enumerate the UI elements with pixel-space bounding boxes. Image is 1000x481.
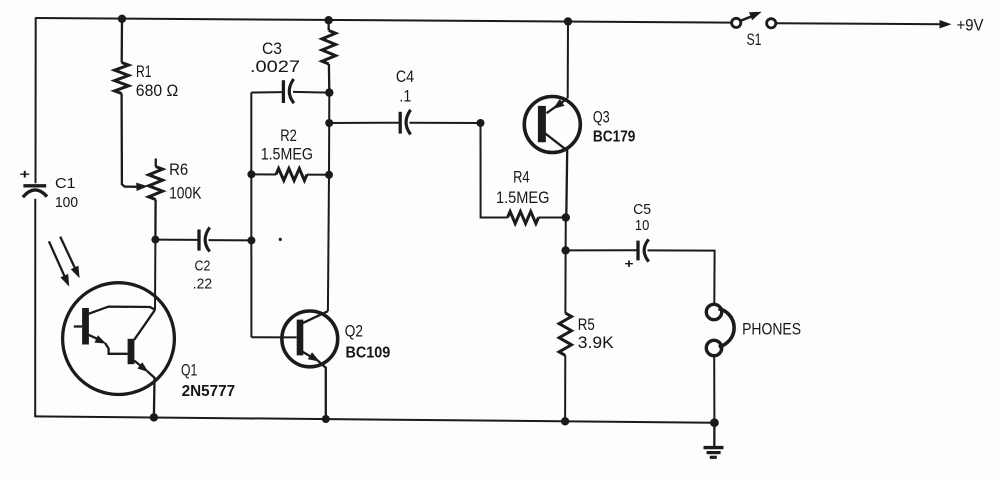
switch S1 lever xyxy=(740,15,757,22)
svg-text:R5: R5 xyxy=(578,315,595,334)
wire R1 bottom to R6 wiper xyxy=(122,94,137,187)
node C2 right xyxy=(247,236,255,244)
wire +9V line right of S1 xyxy=(776,22,942,25)
svg-text:2N5777: 2N5777 xyxy=(182,383,236,400)
svg-text:.1: .1 xyxy=(399,87,411,106)
ground xyxy=(704,423,724,458)
node C2 left xyxy=(151,236,159,244)
wire centre col top xyxy=(327,20,329,30)
capacitor C2 xyxy=(199,227,210,251)
node R2 left xyxy=(247,170,255,178)
svg-text:BC179: BC179 xyxy=(593,129,636,146)
arrow R6 wiper xyxy=(136,183,148,191)
wire left rail lower xyxy=(34,199,36,417)
wire C3 left xyxy=(251,91,282,93)
node Q2 emitter bottom xyxy=(322,415,330,423)
node C4 left xyxy=(325,119,333,127)
wire C5 node to R5 xyxy=(564,250,566,313)
transistor Q3 collector xyxy=(546,134,568,218)
resistor R6 xyxy=(149,167,163,200)
wire R6 bottom xyxy=(154,200,157,240)
phones jack arc xyxy=(718,309,734,347)
wire centre col C3-C4 xyxy=(328,93,330,123)
capacitor C1 xyxy=(23,186,47,197)
wire C4 right xyxy=(410,122,481,124)
Q1 T1 base bar xyxy=(82,308,89,345)
resistor R5 xyxy=(559,313,571,355)
node C4 right xyxy=(477,119,485,127)
wire Q2 base xyxy=(251,336,296,338)
svg-text:1.5MEG: 1.5MEG xyxy=(496,188,550,207)
wire centre col C4-R2 xyxy=(328,123,330,175)
wire R5 bottom xyxy=(564,355,566,421)
wire C3 right xyxy=(293,91,329,94)
light arrow 2 xyxy=(60,237,75,269)
wire C5 right xyxy=(648,250,715,304)
svg-text:Q1: Q1 xyxy=(181,361,197,380)
node Q1 emitter bottom xyxy=(150,413,158,421)
node top rail Q3 xyxy=(564,17,572,25)
svg-text:C5: C5 xyxy=(633,201,651,218)
wire C2 right xyxy=(209,239,252,241)
switch S1 right contact xyxy=(767,19,776,28)
transistor Q2 collector xyxy=(303,311,328,323)
wire R2 left xyxy=(251,173,276,175)
svg-text:R4: R4 xyxy=(513,168,530,187)
transistor Q3 base bar xyxy=(538,106,546,142)
wire centre col R2 to Q2 collector xyxy=(328,175,329,311)
wire centre col to C3 node xyxy=(328,64,331,93)
svg-text:C4: C4 xyxy=(396,67,414,86)
wire R4 node to C5 node xyxy=(565,218,567,251)
svg-text:R6: R6 xyxy=(169,160,188,179)
wire C2 left xyxy=(155,239,197,241)
Q1 T1 emitter xyxy=(89,335,99,339)
svg-text:S1: S1 xyxy=(747,30,762,49)
svg-text:.22: .22 xyxy=(193,275,212,292)
switch S1 left contact xyxy=(732,18,741,27)
resistor R1 xyxy=(115,63,129,94)
wire R6 top stub xyxy=(155,159,157,167)
svg-text:3.9K: 3.9K xyxy=(578,333,615,352)
wire top rail left of S1 xyxy=(36,18,733,23)
svg-text:Q3: Q3 xyxy=(593,108,610,127)
resistor R4 xyxy=(508,212,539,224)
resistor unlabeled top xyxy=(322,31,336,65)
Q1 T2 collector xyxy=(134,310,155,340)
svg-text:R2: R2 xyxy=(280,126,297,145)
node top rail R1 xyxy=(118,15,126,23)
wire Q1 collector column xyxy=(154,240,156,310)
svg-text:.0027: .0027 xyxy=(250,57,300,76)
wire R4 right xyxy=(539,217,566,219)
svg-text:680 Ω: 680 Ω xyxy=(136,81,179,100)
svg-text:100K: 100K xyxy=(169,184,202,203)
svg-text:10: 10 xyxy=(635,217,649,234)
arrow to +9V xyxy=(940,20,952,29)
node R5 bottom xyxy=(561,417,569,425)
capacitor C4 xyxy=(400,110,410,135)
wire Q3 emitter to rail xyxy=(567,22,569,99)
Q1 T1-T2 link xyxy=(105,343,128,354)
phototransistor Q1 body xyxy=(63,283,175,395)
phones jack top xyxy=(706,304,721,319)
svg-text:PHONES: PHONES xyxy=(742,320,801,339)
wire R2 right xyxy=(307,174,329,176)
node top rail centre xyxy=(324,16,332,24)
svg-text:BC109: BC109 xyxy=(346,345,391,362)
wire R4 left leg xyxy=(481,123,508,218)
transistor Q3 body xyxy=(524,97,580,153)
svg-text:+: + xyxy=(20,167,31,182)
svg-text:C1: C1 xyxy=(55,175,76,192)
transistor Q2 body xyxy=(282,311,338,367)
svg-text:C3: C3 xyxy=(262,39,282,58)
wire bottom rail xyxy=(35,416,714,422)
transistor Q2 base bar xyxy=(297,320,304,356)
wire R1 top xyxy=(121,19,124,63)
svg-text:C2: C2 xyxy=(195,257,211,274)
Q1 T2 base bar xyxy=(128,339,135,364)
wire phones bottom xyxy=(713,356,715,423)
wire C5 left xyxy=(566,249,637,251)
Q1 T2 emitter xyxy=(134,361,141,367)
capacitor C5 xyxy=(638,239,649,261)
svg-text:+: + xyxy=(625,256,634,271)
svg-text:Q2: Q2 xyxy=(345,322,363,341)
capacitor C3 xyxy=(283,79,294,103)
node R2 right xyxy=(325,171,333,179)
wire C4 left xyxy=(329,122,399,124)
resistor R2 xyxy=(276,169,307,181)
Q1 T1 base stub xyxy=(74,325,82,327)
svg-text:+9V: +9V xyxy=(957,15,985,34)
light arrow 1 xyxy=(49,241,65,276)
wire column C3/R2-left down to Q2 base xyxy=(250,93,252,338)
node R4 right xyxy=(562,213,570,221)
Q1 T1 collector xyxy=(89,307,156,314)
node C3 right xyxy=(325,88,333,96)
node C5 left xyxy=(561,246,569,254)
transistor Q2 emitter xyxy=(303,352,313,358)
svg-text:100: 100 xyxy=(55,194,78,211)
speck artifact xyxy=(279,238,282,241)
svg-text:R1: R1 xyxy=(136,62,152,81)
wire left rail upper xyxy=(35,17,37,183)
phones jack bottom xyxy=(706,340,721,355)
transistor Q3 emitter xyxy=(547,98,568,113)
node ground xyxy=(710,418,719,427)
svg-text:1.5MEG: 1.5MEG xyxy=(261,145,313,164)
